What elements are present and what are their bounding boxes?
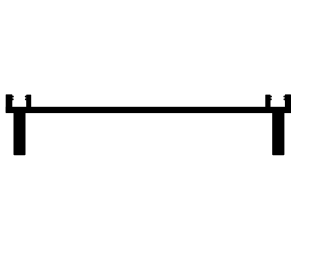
left leg <box>14 112 26 156</box>
right outer prong <box>285 94 291 112</box>
left inner prong lower tooth <box>25 98 27 100</box>
left outer prong lower tooth <box>12 98 14 100</box>
right inner prong upper tooth <box>270 96 272 98</box>
right inner prong <box>265 95 270 113</box>
right outer prong lower tooth <box>283 98 285 100</box>
left outer prong <box>6 94 13 112</box>
left inner prong <box>26 95 31 113</box>
horizontal bar <box>6 107 291 113</box>
right inner prong lower tooth <box>270 98 272 100</box>
left inner prong upper tooth <box>25 96 27 98</box>
left outer prong upper tooth <box>12 96 14 98</box>
right outer prong upper tooth <box>283 96 285 98</box>
right leg <box>272 112 284 156</box>
